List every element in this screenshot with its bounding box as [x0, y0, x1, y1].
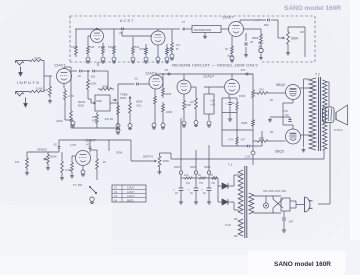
svg-text:330K: 330K	[116, 151, 123, 155]
svg-text:.02: .02	[77, 74, 81, 78]
svg-text:.47: .47	[86, 143, 90, 147]
svg-text:.05: .05	[164, 68, 168, 72]
svg-text:12AX7: 12AX7	[127, 191, 135, 194]
svg-text:T 2: T 2	[315, 73, 320, 77]
svg-text:+: +	[188, 188, 190, 192]
svg-text:500K: 500K	[50, 155, 57, 159]
svg-text:INT.: INT.	[258, 45, 263, 49]
svg-text:330K: 330K	[163, 159, 170, 163]
svg-text:DEPTH: DEPTH	[143, 155, 153, 159]
svg-text:3.3M: 3.3M	[65, 168, 72, 172]
svg-text:6.3V: 6.3V	[225, 223, 231, 227]
svg-text:12AX7: 12AX7	[85, 139, 96, 143]
svg-text:12AU7: 12AU7	[203, 75, 215, 79]
svg-text:260V: 260V	[190, 165, 197, 169]
svg-text:I N P U T S: I N P U T S	[17, 80, 39, 85]
svg-text:SANO model 160R: SANO model 160R	[284, 5, 342, 12]
svg-text:.047: .047	[288, 220, 294, 224]
svg-text:REVERB CIRCUIT — MODEL 160R ON: REVERB CIRCUIT — MODEL 160R ONLY	[172, 64, 259, 68]
svg-text:.02: .02	[134, 77, 138, 81]
svg-text:SPEED: SPEED	[37, 148, 47, 152]
svg-text:+: +	[201, 188, 203, 192]
svg-text:220: 220	[259, 88, 264, 92]
svg-text:10K: 10K	[92, 119, 97, 123]
svg-text:250V: 250V	[174, 165, 181, 169]
svg-text:6BQ5: 6BQ5	[276, 83, 285, 87]
svg-text:4.7M: 4.7M	[70, 143, 76, 147]
svg-text:1K: 1K	[225, 47, 229, 51]
svg-text:6BQ5: 6BQ5	[275, 150, 284, 154]
svg-text:100K: 100K	[36, 87, 43, 91]
svg-text:.047: .047	[240, 68, 246, 72]
svg-text:3.3M: 3.3M	[98, 45, 105, 49]
svg-text:470K: 470K	[139, 47, 146, 51]
svg-text:T 1: T 1	[228, 163, 233, 167]
svg-text:+1R: +1R	[210, 103, 215, 107]
svg-text:150K: 150K	[239, 94, 246, 98]
svg-text:VOL.: VOL.	[136, 104, 143, 108]
svg-text:220K: 220K	[165, 92, 172, 96]
svg-text:1M: 1M	[15, 160, 20, 164]
svg-text:12AU7: 12AU7	[127, 195, 135, 198]
svg-text:FT. SW.: FT. SW.	[73, 183, 83, 187]
svg-text:500K: 500K	[120, 96, 127, 100]
svg-text:1500: 1500	[108, 45, 115, 49]
svg-text:220: 220	[259, 136, 264, 140]
svg-text:7W: 7W	[211, 181, 215, 185]
svg-text:11K: 11K	[184, 173, 189, 177]
svg-text:.002: .002	[263, 23, 269, 27]
svg-text:220K: 220K	[56, 119, 63, 123]
svg-text:BASS: BASS	[78, 100, 85, 104]
svg-text:1K: 1K	[232, 102, 235, 105]
svg-text:+10: +10	[210, 99, 215, 103]
svg-text:4.7K: 4.7K	[228, 138, 234, 142]
svg-text:C25: C25	[283, 109, 288, 113]
svg-text:100K: 100K	[34, 56, 41, 60]
svg-text:6BQ5: 6BQ5	[127, 199, 134, 202]
svg-text:.002 TR: .002 TR	[104, 117, 113, 121]
svg-text:220K: 220K	[166, 110, 173, 114]
svg-text:265: 265	[92, 115, 97, 119]
svg-text:1500: 1500	[96, 99, 102, 103]
svg-text:ON-OFF-POL SW: ON-OFF-POL SW	[263, 189, 287, 193]
svg-text:25: 25	[250, 40, 254, 44]
svg-text:7W: 7W	[199, 181, 203, 185]
svg-text:+: +	[173, 188, 175, 192]
svg-text:12AX7: 12AX7	[54, 64, 65, 68]
svg-text:12AX7: 12AX7	[127, 187, 135, 190]
svg-text:6 C S 7: 6 C S 7	[120, 18, 134, 23]
svg-text:10M: 10M	[71, 45, 77, 49]
svg-text:2K: 2K	[198, 173, 201, 177]
svg-text:1W: 1W	[186, 181, 190, 185]
svg-text:150K: 150K	[90, 82, 97, 86]
svg-text:500K: 500K	[291, 37, 299, 41]
svg-text:1M: 1M	[44, 88, 49, 92]
svg-text:.001: .001	[90, 75, 96, 79]
svg-text:7500: 7500	[227, 54, 234, 58]
svg-text:12AX7: 12AX7	[222, 16, 233, 20]
svg-text:SANO model 160R: SANO model 160R	[274, 261, 331, 268]
svg-text:.05: .05	[53, 143, 57, 147]
svg-text:.047: .047	[240, 138, 246, 142]
svg-text:330K: 330K	[241, 121, 248, 125]
svg-text:330V: 330V	[204, 165, 211, 169]
svg-text:1M: 1M	[90, 45, 95, 49]
svg-text:500K: 500K	[78, 104, 84, 108]
svg-text:2.2K: 2.2K	[245, 155, 251, 159]
svg-text:.47: .47	[181, 20, 186, 24]
svg-text:4M: 4M	[300, 30, 305, 34]
svg-text:REVERB BAR: REVERB BAR	[194, 28, 211, 32]
svg-text:8 Ohm: 8 Ohm	[334, 128, 343, 132]
svg-text:TR: TR	[285, 113, 289, 117]
svg-text:680K: 680K	[252, 36, 259, 40]
svg-text:.25: .25	[102, 160, 106, 164]
